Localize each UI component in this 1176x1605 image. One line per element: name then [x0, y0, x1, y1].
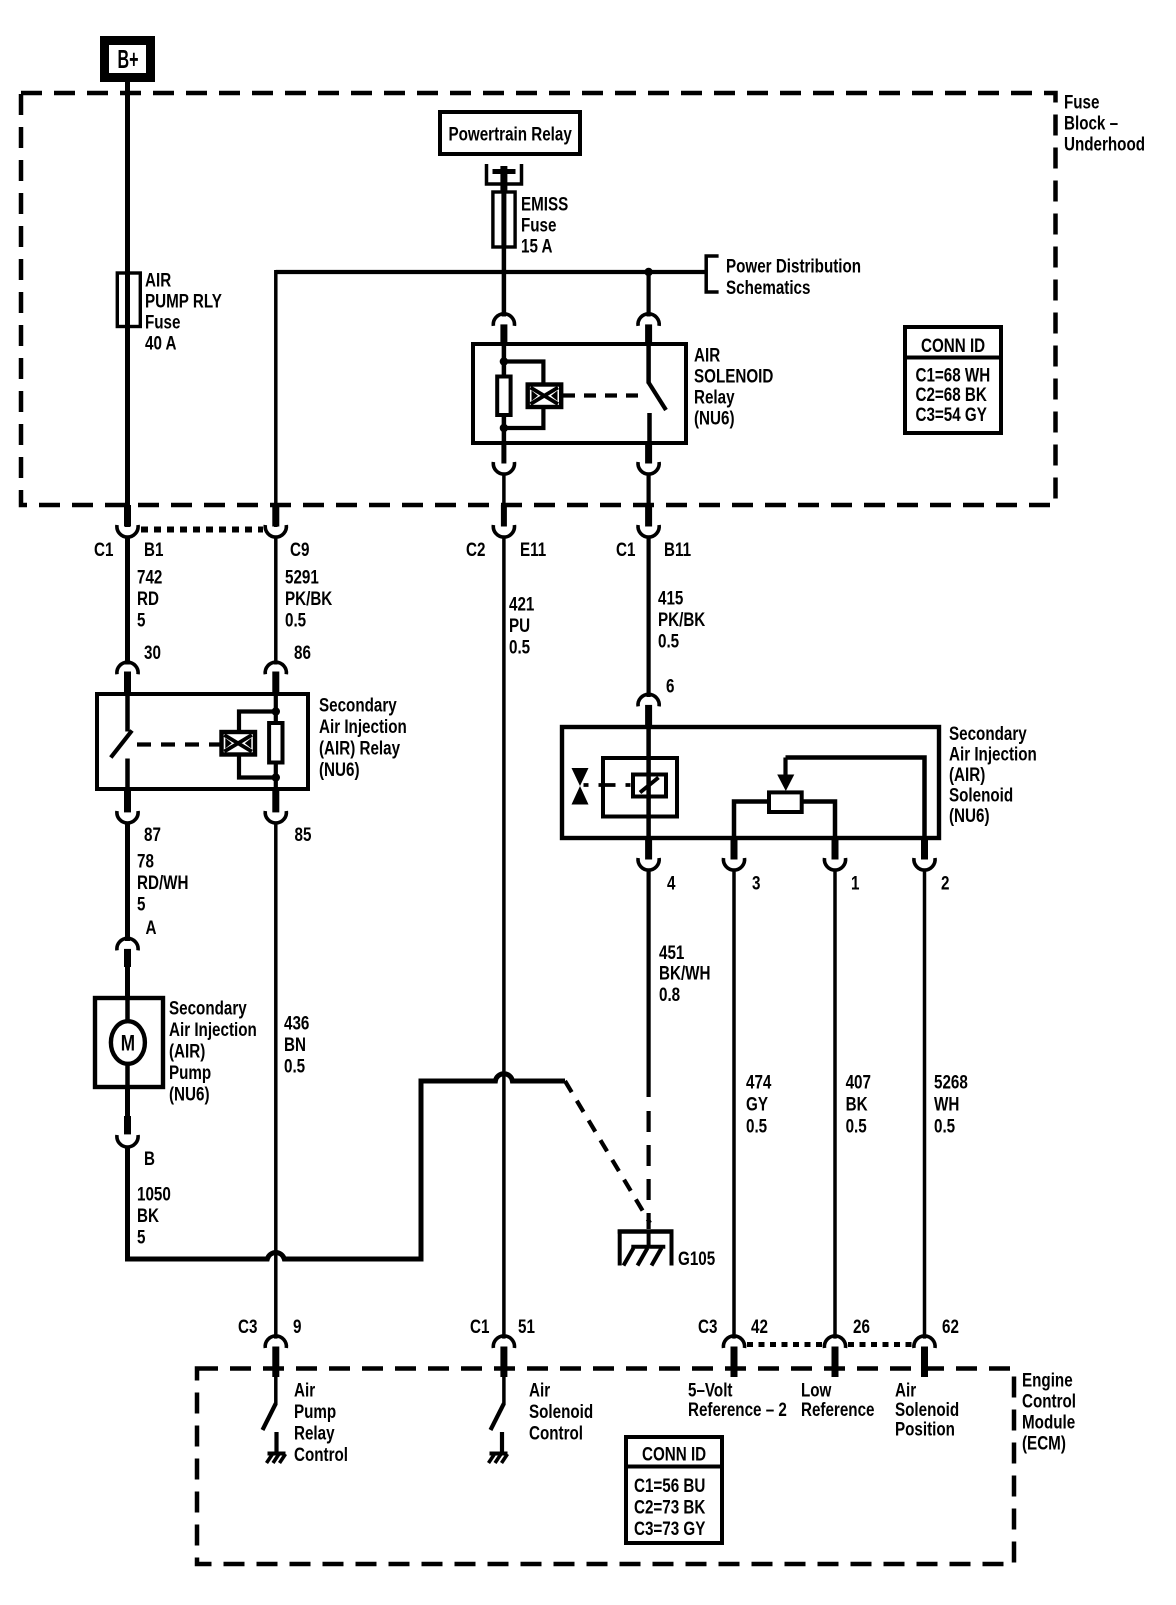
Powertrain Relay box: [440, 112, 580, 154]
CONN ID table (ECM): [626, 1437, 722, 1543]
dashed splice link to ground G105: [565, 1081, 650, 1223]
svg-text:421PU0.5: 421PU0.5: [509, 593, 535, 658]
connector pin B of AIR pump: [125, 1087, 130, 1116]
svg-text:5–VoltReference – 2: 5–VoltReference – 2: [688, 1379, 787, 1421]
svg-text:CONN ID: CONN ID: [921, 334, 985, 356]
wire 421 PU from E11 down to ECM pin 51: [502, 536, 506, 1339]
svg-text:AIRPUMP RLYFuse40 A: AIRPUMP RLYFuse40 A: [145, 269, 222, 354]
connector pin 86: [265, 662, 286, 674]
svg-text:26: 26: [853, 1315, 870, 1337]
wire fuse 40A down to connector B1: [125, 327, 130, 528]
power bus wire to Power Distribution: [276, 270, 706, 274]
svg-text:FuseBlock –Underhood: FuseBlock –Underhood: [1064, 91, 1145, 155]
svg-text:62: 62: [942, 1315, 959, 1337]
svg-text:SecondaryAir Injection(AIR)Pum: SecondaryAir Injection(AIR)Pump(NU6): [169, 997, 257, 1105]
AIR relay coil parallel branch wires: [239, 712, 276, 733]
svg-text:AirSolenoidPosition: AirSolenoidPosition: [895, 1379, 959, 1440]
wire B+ feed down to AIR PUMP RLY fuse: [125, 82, 130, 273]
ECM connector pin 42: [723, 1336, 744, 1348]
AIR relay switch fixed contact: [125, 694, 130, 732]
connector pin 6 of AIR solenoid: [638, 694, 659, 706]
bracket Power Distribution Schematics: [706, 256, 718, 292]
svg-text:EMISSFuse15 A: EMISSFuse15 A: [521, 193, 568, 257]
svg-text:6: 6: [666, 675, 675, 697]
wire 5268 WH down to ECM pin 62: [923, 870, 927, 1339]
svg-text:AIRSOLENOIDRelay(NU6): AIRSOLENOIDRelay(NU6): [694, 344, 773, 429]
connector pair on B11 branch into AIR SOLENOID relay switch: [638, 314, 659, 326]
solenoid actuator slash box: [633, 775, 666, 797]
wiper feed wire to pin 2: [786, 758, 925, 839]
svg-text:5268WH0.5: 5268WH0.5: [934, 1071, 968, 1137]
wire 1050 BK pump ground run to G105 (hops over 436 BN and 421 PU wires): [128, 1074, 566, 1259]
svg-text:C2: C2: [466, 538, 486, 560]
svg-text:C1=68 WHC2=68 BKC3=54 GY: C1=68 WHC2=68 BKC3=54 GY: [916, 364, 991, 426]
relay coil parallel branch wires: [504, 362, 544, 385]
connector pin A of AIR pump: [117, 938, 138, 950]
connector pin 2: [921, 838, 928, 860]
junction node bottom of coil: [500, 424, 508, 432]
svg-text:C3: C3: [698, 1315, 718, 1337]
connector pair on EMISS wire into AIR SOLENOID relay coil: [502, 274, 507, 317]
connector cup below relay on coil return wire: [501, 443, 506, 464]
wire EMISS fuse to power bus: [502, 247, 507, 274]
svg-text:G105: G105: [678, 1247, 715, 1269]
chassis ground in ECM (pin 9 driver): [268, 1452, 286, 1456]
svg-text:C1: C1: [616, 538, 636, 560]
position sensor wiper arrow: [783, 758, 787, 777]
svg-text:EngineControlModule(ECM): EngineControlModule(ECM): [1022, 1369, 1076, 1454]
svg-text:415PK/BK0.5: 415PK/BK0.5: [658, 587, 706, 652]
svg-text:3: 3: [752, 872, 761, 894]
wire 415 PK/BK down to solenoid pin 6: [646, 536, 650, 697]
connector C1-B1 exit pin: [124, 505, 131, 527]
relay switch output wire: [647, 413, 652, 443]
valve actuating dashed link: [584, 783, 634, 787]
Engine Control Module (ECM) dashed box: [197, 1369, 1014, 1565]
AIR relay switch blade: [111, 731, 132, 758]
svg-text:42: 42: [751, 1315, 768, 1337]
svg-text:2: 2: [941, 872, 950, 894]
connector pin 30: [117, 662, 138, 674]
resistor lead to pin 1: [802, 802, 835, 839]
ECM connector pin 26: [824, 1336, 845, 1348]
svg-text:451BK/WH0.8: 451BK/WH0.8: [659, 941, 710, 1005]
svg-text:B+: B+: [118, 44, 139, 74]
AIR SOLENOID Relay (NU6) box: [473, 344, 686, 443]
AIR relay coil element: [274, 694, 278, 723]
dotted connector link 42-26: [747, 1342, 823, 1347]
wire 451 dashed continuation to ground G105: [646, 1111, 650, 1229]
connector C1-B11 exit pin: [645, 505, 652, 527]
svg-text:C1: C1: [94, 538, 114, 560]
svg-text:AirSolenoidControl: AirSolenoidControl: [529, 1379, 593, 1444]
relay switch blade: [649, 383, 666, 411]
wire 474 GY down to ECM pin 42: [732, 870, 736, 1339]
connector pin 1: [832, 838, 839, 860]
svg-text:B1: B1: [144, 538, 164, 560]
svg-text:5291PK/BK0.5: 5291PK/BK0.5: [285, 566, 333, 631]
connector C9 exit pin: [272, 505, 279, 527]
svg-text:E11: E11: [520, 538, 546, 560]
svg-text:SecondaryAir Injection(AIR)Sol: SecondaryAir Injection(AIR)Solenoid(NU6): [949, 722, 1037, 826]
relay coil wire from pin: [502, 344, 507, 377]
wire bus down-left branch to connector C9: [274, 270, 278, 527]
svg-text:86: 86: [294, 641, 311, 663]
wire 451 BK/WH solid segment: [646, 870, 650, 1098]
Secondary Air Injection (AIR) Relay (NU6) box: [97, 694, 308, 789]
svg-text:M: M: [121, 1032, 135, 1057]
svg-text:A: A: [146, 916, 157, 938]
AIR relay actuating dashed link: [137, 742, 220, 746]
svg-text:474GY0.5: 474GY0.5: [746, 1071, 772, 1137]
connector cup below relay on switched output wire: [645, 443, 652, 464]
junction node top of AIR relay coil: [272, 707, 280, 715]
junction node bottom of AIR relay coil: [272, 773, 280, 781]
ECM connector pin 62: [914, 1336, 935, 1348]
svg-text:85: 85: [295, 823, 312, 845]
solenoid inner enclosure: [603, 758, 677, 817]
svg-text:407BK0.5: 407BK0.5: [846, 1071, 871, 1137]
ground symbol G105: [618, 1229, 674, 1234]
connector C2-E11 exit pin: [501, 505, 507, 527]
AIR relay actuator crossed box: [222, 732, 256, 755]
ECM air pump relay control switch: [274, 1377, 278, 1405]
svg-text:Power DistributionSchematics: Power DistributionSchematics: [726, 255, 861, 299]
svg-text:4: 4: [667, 872, 676, 894]
wire 742 RD down to pin 30: [125, 536, 130, 665]
wire 407 BK down to ECM pin 26: [833, 870, 837, 1339]
junction node on bus at B11 branch: [644, 268, 652, 276]
svg-text:742RD5: 742RD5: [137, 566, 163, 631]
svg-text:1: 1: [851, 872, 860, 894]
svg-text:SecondaryAir Injection(AIR) Re: SecondaryAir Injection(AIR) Relay(NU6): [319, 694, 407, 781]
wire B11 branch down: [646, 272, 650, 317]
svg-text:CONN ID: CONN ID: [642, 1443, 706, 1465]
relay actuator crossed box: [528, 385, 562, 408]
Secondary Air Injection (AIR) Solenoid (NU6) box: [562, 727, 939, 838]
position sensor resistive element: [769, 792, 802, 812]
svg-text:436BN0.5: 436BN0.5: [284, 1012, 310, 1077]
svg-text:B11: B11: [664, 538, 691, 560]
svg-text:C1: C1: [470, 1315, 490, 1337]
AIR relay switch output wire: [125, 759, 130, 790]
svg-text:LowReference: LowReference: [801, 1379, 875, 1421]
wire 436 BN from pin 85 down to ECM pin 9: [274, 821, 278, 1338]
relay switch fixed contact: [646, 344, 651, 384]
solenoid coil feed wire: [646, 727, 651, 838]
wire 78 RD/WH down to pump connector A: [125, 822, 130, 941]
dotted connector link 26-62: [848, 1342, 912, 1347]
battery positive terminal B+: [105, 41, 151, 78]
junction node top of coil: [500, 357, 508, 365]
connector pin 4: [645, 838, 652, 860]
svg-text:78RD/WH5: 78RD/WH5: [137, 850, 188, 915]
svg-text:51: 51: [518, 1315, 535, 1337]
ECM connector pin 9: [265, 1336, 286, 1348]
fuse EMISS 15 A: [493, 192, 515, 247]
valve symbol (bowtie): [572, 768, 589, 786]
relay coil element: [497, 377, 510, 416]
chassis ground in ECM (pin 51 driver): [490, 1452, 508, 1456]
svg-text:Powertrain Relay: Powertrain Relay: [449, 123, 573, 145]
Fuse Block - Underhood dashed box: [21, 93, 1056, 505]
ECM air solenoid control switch: [502, 1377, 506, 1405]
ECM connector pin 51: [493, 1336, 514, 1348]
svg-text:1050BK5: 1050BK5: [137, 1183, 171, 1248]
connector pin 3: [731, 838, 738, 860]
connector pin 87 below AIR relay: [124, 789, 131, 812]
wire 5291 down to pin 86: [274, 536, 278, 665]
svg-text:C1=56 BUC2=73 BKC3=73 GY: C1=56 BUC2=73 BKC3=73 GY: [634, 1474, 706, 1539]
svg-text:AirPumpRelayControl: AirPumpRelayControl: [294, 1379, 348, 1466]
svg-text:C9: C9: [290, 538, 310, 560]
pump motor M: [125, 998, 130, 1022]
svg-text:C3: C3: [238, 1315, 258, 1337]
dotted connector link B1-C9: [141, 527, 263, 533]
CONN ID table (fuse block): [905, 327, 1001, 433]
svg-text:B: B: [144, 1147, 155, 1169]
relay actuating dashed link: [563, 393, 645, 397]
fuse AIR PUMP RLY 40 A: [117, 273, 140, 327]
connector pin 85 below AIR relay: [272, 789, 279, 812]
svg-text:30: 30: [144, 641, 161, 663]
svg-text:87: 87: [144, 823, 161, 845]
connector cup from Powertrain Relay: [487, 164, 522, 184]
svg-text:9: 9: [293, 1315, 302, 1337]
resistor lead to pin 3: [734, 802, 769, 839]
Secondary Air Injection (AIR) Pump (NU6) box: [95, 998, 163, 1087]
